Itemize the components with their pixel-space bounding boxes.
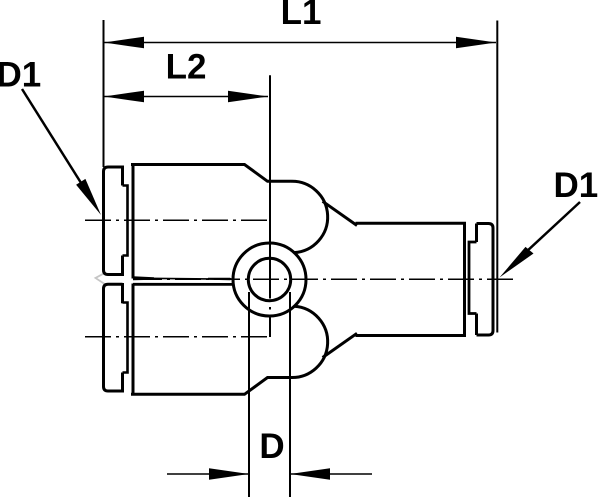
top-left body top edge with chamfer xyxy=(131,165,291,182)
svg-text:L1: L1 xyxy=(281,0,322,32)
extension line right (L1) xyxy=(496,21,498,333)
centerline top port xyxy=(85,219,267,221)
crotch upper line left blob xyxy=(133,276,154,280)
leader D1 top-left arrowhead xyxy=(76,179,101,215)
crotch lower line xyxy=(133,283,234,286)
bottom-left body left edge xyxy=(132,284,135,395)
leader D1 right xyxy=(512,202,580,265)
extension line D right xyxy=(289,292,291,497)
right port bottom edge xyxy=(356,334,467,337)
dimension D right tail xyxy=(290,473,372,475)
dimension D right arrowhead xyxy=(290,468,330,480)
bottom-left body bottom edge with chamfer xyxy=(131,378,291,395)
right release cap xyxy=(477,224,494,336)
dimension D left tail xyxy=(167,473,249,475)
dimension D left arrowhead xyxy=(209,468,249,480)
extension line D left xyxy=(248,292,250,497)
extension line right (L2) through circle center xyxy=(269,75,271,298)
right cap left edge lower xyxy=(475,314,478,336)
bottom-left cap right edge upper xyxy=(121,283,124,303)
centerline bottom port xyxy=(85,336,268,338)
top-left cap right edge lower xyxy=(121,256,124,277)
svg-text:D1: D1 xyxy=(554,166,599,205)
leader D1 right arrowhead xyxy=(500,247,534,278)
crotch upper line right blob xyxy=(208,278,234,281)
centerline main axis xyxy=(136,278,516,280)
dimension L2 line xyxy=(104,96,268,98)
leader D1 top-left xyxy=(22,89,88,194)
dimension L2 arrowheads xyxy=(104,91,268,103)
bottom dome arc xyxy=(291,306,328,377)
bottom-left port release cap xyxy=(104,284,123,391)
extension line left (L1/L2) xyxy=(103,20,105,167)
outer circle xyxy=(233,243,306,316)
top transition diagonal xyxy=(323,201,357,225)
right port body right edge xyxy=(463,222,466,337)
top dome arc xyxy=(291,181,328,252)
right collet neck xyxy=(469,242,477,314)
bottom-left cap right edge lower xyxy=(121,373,124,393)
top-left body left edge xyxy=(132,165,135,279)
top-left port release cap xyxy=(104,167,123,275)
svg-text:D: D xyxy=(259,427,284,466)
inner circle xyxy=(248,258,290,300)
svg-text:D1: D1 xyxy=(0,56,41,95)
right port top edge xyxy=(356,222,467,225)
crotch upper line xyxy=(133,278,233,279)
dimension L1 arrowheads xyxy=(104,37,496,49)
grey crotch mark between caps xyxy=(96,273,106,285)
svg-text:L2: L2 xyxy=(166,48,207,87)
top-left cap right edge upper xyxy=(121,166,124,186)
dimension L1 line xyxy=(104,42,496,44)
bottom transition diagonal xyxy=(323,333,357,357)
top-left collet neck xyxy=(123,186,128,256)
right cap left edge upper xyxy=(475,224,478,243)
bottom-left collet neck xyxy=(123,303,128,373)
